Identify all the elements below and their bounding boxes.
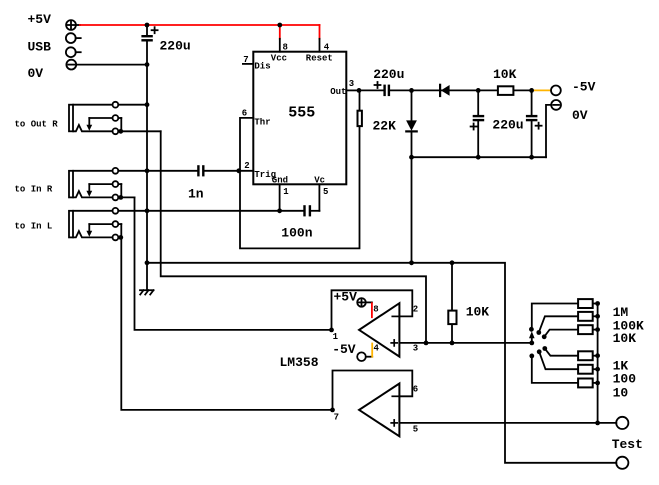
jack J4 sleeve contact bbox=[73, 208, 279, 214]
svg-text:6: 6 bbox=[413, 385, 418, 395]
wire resistor bank bus bbox=[597, 304, 599, 423]
svg-text:to Out R: to Out R bbox=[15, 119, 59, 129]
label Dis bbox=[254, 62, 270, 72]
svg-text:2: 2 bbox=[244, 161, 249, 171]
svg-text:10: 10 bbox=[613, 385, 629, 400]
svg-text:2: 2 bbox=[413, 305, 418, 315]
label pin 3 bbox=[349, 79, 354, 89]
switch SW1 contact D bbox=[542, 346, 547, 351]
label R3 value 10K bbox=[466, 305, 490, 320]
node junction Trig rail crossing bbox=[145, 168, 150, 173]
wire U2A output and feedback loop bbox=[332, 290, 413, 330]
jack J2 to Out R label bbox=[15, 119, 59, 129]
connector J1 label +5V bbox=[28, 12, 52, 27]
diode D1 vertical bbox=[406, 90, 417, 157]
svg-text:Vcc: Vcc bbox=[271, 53, 287, 63]
connector J1 pin 3 bbox=[66, 47, 81, 57]
label R6 value 10K bbox=[613, 331, 637, 346]
resistor R6 10K bbox=[578, 325, 598, 334]
svg-text:7: 7 bbox=[334, 413, 339, 423]
label pin 4 bbox=[324, 42, 330, 52]
label R8 value 100 bbox=[613, 372, 637, 387]
svg-text:10K: 10K bbox=[493, 67, 517, 82]
svg-text:Vc: Vc bbox=[314, 176, 325, 186]
label R9 value 10 bbox=[613, 385, 629, 400]
label Thr bbox=[254, 117, 270, 127]
capacitor C6 220u filter bbox=[526, 90, 542, 157]
wire U2B output and feedback loop bbox=[333, 371, 413, 410]
label Vcc bbox=[271, 53, 287, 63]
svg-text:8: 8 bbox=[373, 305, 378, 315]
svg-text:+5V: +5V bbox=[28, 12, 52, 27]
label C1 value 220u bbox=[160, 39, 191, 54]
capacitor C4 220u filter bbox=[471, 90, 485, 157]
op-amp U2A minus input symbol bbox=[392, 315, 398, 317]
node A junction bbox=[409, 88, 414, 93]
label 0V right bbox=[572, 108, 588, 123]
svg-text:3: 3 bbox=[413, 343, 418, 353]
node junction R3 top bbox=[450, 260, 455, 265]
node junction 0V/rail bbox=[145, 62, 150, 67]
label pin 7 bbox=[243, 55, 248, 65]
op-amp U2B plus input symbol bbox=[391, 420, 397, 426]
ground symbol bbox=[140, 290, 154, 294]
wire 0V from connector to rail bbox=[76, 64, 147, 66]
power terminal -5V op-amp bbox=[357, 352, 372, 361]
svg-text:4: 4 bbox=[374, 343, 380, 353]
wire contact A to R4 bbox=[532, 304, 577, 330]
label R4 value 1M bbox=[613, 305, 629, 320]
op-amp U2B triangle bbox=[359, 384, 399, 437]
resistor R7 1K bbox=[578, 351, 598, 360]
wire contact E to R8 bbox=[539, 352, 577, 369]
svg-text:100n: 100n bbox=[281, 225, 312, 240]
wire 555 pin8 stub bbox=[279, 39, 281, 52]
jack J3 to In R label bbox=[15, 184, 53, 194]
jack J2 switch arrow bbox=[86, 118, 92, 131]
label U2B pin 6 bbox=[413, 385, 418, 395]
svg-text:0V: 0V bbox=[572, 108, 588, 123]
capacitor C2 1n with trig wire bbox=[118, 165, 253, 176]
jack J3 tip contact bbox=[73, 191, 134, 200]
jack J4 ring contact bbox=[89, 221, 121, 237]
wire yellow -5V bbox=[532, 89, 551, 91]
label pin 1 bbox=[283, 187, 289, 197]
label C3 value 220u bbox=[373, 67, 404, 82]
node B junction bbox=[476, 88, 481, 93]
switch SW1 contact B bbox=[536, 330, 541, 335]
node junction bus R5 bbox=[595, 314, 600, 319]
svg-text:+5V: +5V bbox=[334, 289, 358, 304]
label pin 8 bbox=[283, 42, 288, 52]
jack J3 ring contact bbox=[89, 181, 121, 197]
svg-text:to In L: to In L bbox=[15, 222, 53, 232]
connector J1 label 0V bbox=[28, 66, 44, 81]
svg-text:7: 7 bbox=[243, 55, 248, 65]
svg-text:22K: 22K bbox=[373, 118, 397, 133]
label R2 value 10K bbox=[493, 67, 517, 82]
svg-text:Gnd: Gnd bbox=[272, 176, 288, 186]
node junction C6/rail bbox=[529, 155, 534, 160]
wire U2B +input line to Test bbox=[399, 422, 616, 424]
node junction jack J2 tip bbox=[118, 129, 123, 134]
svg-text:220u: 220u bbox=[160, 39, 191, 54]
node junction C4/rail bbox=[476, 155, 481, 160]
wire ground distribution bbox=[147, 263, 616, 463]
jack J2 sleeve contact bbox=[73, 102, 147, 108]
connector J5 -5V terminal bbox=[551, 86, 561, 96]
label U2B pin 5 bbox=[413, 425, 418, 435]
svg-text:5: 5 bbox=[323, 187, 328, 197]
switch SW1 contact A bbox=[529, 327, 534, 332]
node junction +5V/pin8 bbox=[277, 23, 282, 28]
connector J1 pin 1 (+) bbox=[66, 20, 80, 30]
capacitor C5 100n bbox=[280, 205, 320, 216]
node junction bus R4 bbox=[595, 301, 600, 306]
jack J4 to In L label bbox=[15, 222, 53, 232]
svg-text:220u: 220u bbox=[492, 118, 523, 133]
capacitor C1 220u bbox=[141, 25, 157, 42]
wire -5V ground return rail bbox=[412, 156, 547, 158]
label U2A pin 4 bbox=[374, 343, 380, 353]
wire ground rail vertical bbox=[146, 42, 148, 291]
wire 555 pin5 Vc stub bbox=[318, 184, 320, 211]
label -5V op-amp bbox=[332, 342, 356, 357]
node junction jack J3 tip bbox=[118, 195, 123, 200]
node junction +5V/C1 bbox=[145, 23, 150, 28]
label C2 value 1n bbox=[188, 187, 204, 202]
node junction jack J2 wire / +input bbox=[424, 341, 429, 346]
label C5 value 100n bbox=[281, 225, 312, 240]
svg-text:to In R: to In R bbox=[15, 184, 53, 194]
svg-text:6: 6 bbox=[242, 108, 247, 118]
label U2A pin 3 bbox=[413, 343, 418, 353]
svg-text:555: 555 bbox=[288, 105, 315, 122]
switch SW1 contact F bbox=[529, 354, 534, 359]
switch SW1 common pole bbox=[529, 341, 534, 346]
svg-text:10K: 10K bbox=[466, 305, 490, 320]
label -5V bbox=[572, 79, 596, 94]
label Gnd bbox=[272, 176, 288, 186]
wire contact F to R9 bbox=[532, 356, 577, 383]
node junction -5V out bbox=[529, 88, 534, 93]
connector J6 Test top terminal bbox=[616, 417, 628, 429]
label pin 5 bbox=[323, 187, 328, 197]
wire jack J3 tip to op-amp U2A output bbox=[135, 197, 332, 330]
svg-text:Out: Out bbox=[330, 87, 346, 97]
svg-text:0V: 0V bbox=[28, 66, 44, 81]
node junction Out bbox=[357, 88, 362, 93]
jack J4 tip contact bbox=[73, 231, 118, 240]
label R5 value 100K bbox=[613, 319, 644, 334]
svg-text:Dis: Dis bbox=[254, 62, 270, 72]
label U2A pin 2 bbox=[413, 305, 418, 315]
node junction bus R6 bbox=[595, 327, 600, 332]
wire contact D to R7 bbox=[545, 349, 577, 356]
label R1 value 22K bbox=[373, 118, 397, 133]
jack J3 body bbox=[69, 171, 73, 198]
label Out bbox=[330, 87, 346, 97]
resistor R8 100 bbox=[578, 365, 598, 374]
wire 555 pin7 Dis stub bbox=[243, 63, 253, 65]
label C4/C6 value 220u bbox=[492, 118, 523, 133]
svg-text:5: 5 bbox=[413, 425, 418, 435]
node junction U2B output bbox=[330, 408, 335, 413]
node junction ground rail/distribution bbox=[145, 260, 150, 265]
node junction jack J2 sleeve/rail bbox=[145, 102, 150, 107]
switch SW1 contact C bbox=[542, 334, 547, 339]
node junction ground link bbox=[409, 260, 414, 265]
connector J5 0V terminal bbox=[551, 100, 561, 110]
label Test bbox=[612, 437, 643, 452]
label Trig bbox=[254, 170, 276, 180]
label pin 6 bbox=[242, 108, 247, 118]
svg-text:220u: 220u bbox=[373, 67, 404, 82]
label 555 bbox=[288, 105, 315, 122]
op-amp U1 555 body bbox=[253, 52, 346, 185]
label R7 value 1K bbox=[613, 358, 629, 373]
svg-text:4: 4 bbox=[324, 42, 330, 52]
node junction jack J4 tip bbox=[118, 235, 123, 240]
node junction bus R7 bbox=[595, 353, 600, 358]
wire red U2A pin8 bbox=[371, 303, 373, 317]
diode D2 horizontal bbox=[440, 85, 450, 96]
jack J3 switch arrow bbox=[86, 184, 92, 197]
svg-text:1: 1 bbox=[283, 187, 289, 197]
resistor R1 22K bbox=[358, 90, 362, 126]
node junction Trig bbox=[236, 168, 241, 173]
svg-text:Test: Test bbox=[612, 437, 643, 452]
svg-text:1: 1 bbox=[333, 332, 339, 342]
svg-text:Thr: Thr bbox=[254, 117, 270, 127]
connector J1 pin 4 (-) bbox=[66, 60, 76, 70]
node junction D1/rail bbox=[409, 155, 414, 160]
switch SW1 contact E bbox=[537, 349, 542, 354]
svg-text:3: 3 bbox=[349, 79, 354, 89]
wire node A to node B bbox=[390, 89, 497, 91]
wire 555 pin3 Out stub bbox=[346, 89, 359, 91]
node junction bus/Test line bbox=[595, 421, 600, 426]
svg-text:LM358: LM358 bbox=[280, 355, 319, 370]
resistor R9 10 bbox=[578, 379, 598, 388]
label LM358 bbox=[280, 355, 319, 370]
wire U2A +input line bbox=[399, 342, 531, 344]
label U2A pin 1 bbox=[333, 332, 339, 342]
node junction U2A output bbox=[329, 328, 334, 333]
jack J2 body bbox=[69, 105, 73, 132]
svg-text:USB: USB bbox=[28, 39, 52, 54]
wire 555 pin6 Thr stub and feedback to 22K bbox=[240, 118, 360, 249]
connector J1 label USB bbox=[28, 39, 52, 54]
connector J1 pin 2 bbox=[66, 33, 81, 43]
wire 555 pin4 stub bbox=[319, 39, 321, 52]
svg-text:-5V: -5V bbox=[572, 79, 596, 94]
node junction jack J4 sleeve/rail bbox=[145, 208, 150, 213]
wire jack J4 tip to op-amp U2B output bbox=[121, 237, 332, 410]
svg-text:1n: 1n bbox=[188, 187, 204, 202]
resistor R3 10K bias bbox=[448, 263, 456, 343]
wire jack J2 tip to op-amp U2A +input bbox=[161, 131, 426, 343]
node junction bus R8 bbox=[595, 367, 600, 372]
jack J4 switch arrow bbox=[86, 224, 92, 237]
node junction R3 bottom bbox=[450, 341, 455, 346]
label U2B pin 7 bbox=[334, 413, 339, 423]
wire contact C to R6 bbox=[544, 330, 577, 337]
svg-text:Reset: Reset bbox=[306, 53, 333, 63]
capacitor C3 220u coupling bbox=[359, 82, 390, 96]
connector J6 Test bottom terminal bbox=[616, 457, 628, 469]
op-amp U2A plus input symbol bbox=[391, 340, 397, 346]
jack J2 tip contact bbox=[73, 125, 161, 134]
label Reset bbox=[306, 53, 333, 63]
node junction Gnd/jack3 sleeve bbox=[277, 208, 282, 213]
resistor R5 100K bbox=[578, 312, 598, 321]
label +5V op-amp bbox=[334, 289, 358, 304]
label pin 2 bbox=[244, 161, 249, 171]
label Vc bbox=[314, 176, 325, 186]
resistor R2 10K horizontal bbox=[498, 86, 532, 95]
op-amp U2A triangle bbox=[359, 303, 399, 356]
wire yellow U2A pin4 bbox=[371, 344, 373, 357]
wire +5V red rail bbox=[80, 25, 320, 39]
wire contact B to R5 bbox=[539, 316, 577, 332]
svg-text:8: 8 bbox=[283, 42, 288, 52]
jack J2 ring contact bbox=[89, 115, 121, 131]
resistor R4 1M bbox=[578, 299, 598, 308]
wire 0V terminal to rail bbox=[546, 105, 551, 157]
node junction bus R9 bbox=[595, 381, 600, 386]
op-amp U2B minus input symbol bbox=[392, 395, 398, 397]
jack J3 sleeve contact bbox=[73, 168, 118, 174]
svg-text:-5V: -5V bbox=[332, 342, 356, 357]
switch SW1 wiper arrow bbox=[529, 331, 535, 343]
wire 555 pin1 Gnd stub bbox=[279, 184, 281, 211]
svg-text:10K: 10K bbox=[613, 331, 637, 346]
power terminal +5V op-amp bbox=[357, 298, 372, 307]
label U2A pin 8 bbox=[373, 305, 378, 315]
jack J4 body bbox=[69, 211, 73, 238]
wire node A ground link bbox=[411, 157, 413, 263]
